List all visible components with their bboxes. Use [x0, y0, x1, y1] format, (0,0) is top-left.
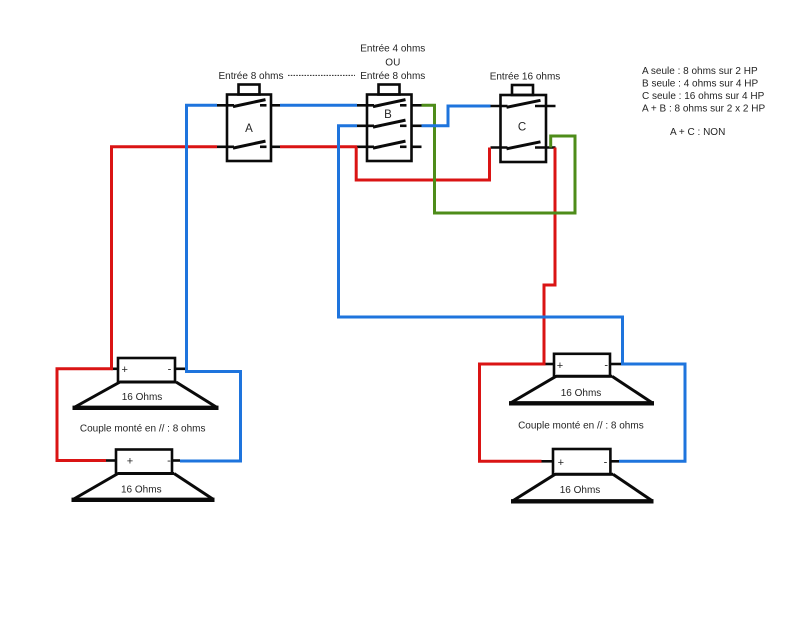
wire red A pole2 to B pole3: [280, 145, 357, 148]
svg-text:Entrée 16 ohms: Entrée 16 ohms: [490, 72, 561, 83]
wire red C pole2 right to right speakers: [480, 148, 556, 462]
wire green B pole1 to C pole2: [422, 105, 576, 213]
svg-text:Entrée 8 ohms: Entrée 8 ohms: [360, 71, 425, 82]
svg-text:-: -: [167, 455, 171, 467]
switch C pole 1: [491, 100, 556, 107]
svg-text:16 Ohms: 16 Ohms: [561, 388, 602, 399]
dashed link between labels: [288, 74, 355, 76]
wire blue A pole1 to left speakers: [180, 105, 241, 461]
svg-text:C: C: [518, 122, 526, 134]
svg-text:-: -: [604, 457, 608, 469]
switch B pole 3: [357, 141, 422, 148]
svg-text:Entrée 8 ohms: Entrée 8 ohms: [218, 71, 283, 82]
switch A pole 1: [217, 100, 280, 107]
wire blue A pole1 to B pole1: [280, 104, 357, 107]
svg-text:A + C : NON: A + C : NON: [670, 127, 725, 138]
switch B body: [367, 85, 412, 162]
speaker HP2 (left bottom) body: [72, 450, 215, 500]
speaker HP2 terminals: [106, 459, 180, 462]
svg-text:-: -: [604, 359, 608, 371]
svg-text:+: +: [557, 360, 563, 372]
speaker HP4 (right bottom) body: [511, 449, 654, 501]
speaker HP1 terminals: [111, 367, 187, 370]
svg-text:B seule : 4 ohms sur 4 HP: B seule : 4 ohms sur 4 HP: [642, 78, 758, 89]
svg-text:A seule : 8 ohms sur 2 HP: A seule : 8 ohms sur 2 HP: [642, 66, 758, 77]
speaker HP1 (left top) body: [73, 358, 219, 408]
svg-text:16 Ohms: 16 Ohms: [122, 392, 163, 403]
svg-text:Couple monté en // : 8 ohms: Couple monté en // : 8 ohms: [80, 423, 206, 434]
wire blue B pole2 to C pole1: [422, 106, 491, 126]
switch A pole 2: [217, 141, 280, 148]
switch A body: [227, 85, 271, 162]
switch B pole 1: [357, 100, 422, 107]
svg-text:Entrée 4 ohms: Entrée 4 ohms: [360, 44, 425, 55]
speaker HP4 terminals: [542, 460, 620, 463]
svg-text:-: -: [168, 363, 172, 375]
switch C pole 2: [491, 142, 556, 149]
svg-text:B: B: [384, 109, 392, 121]
svg-text:A + B : 8 ohms sur 2 x 2 HP: A + B : 8 ohms sur 2 x 2 HP: [642, 103, 765, 114]
svg-text:+: +: [558, 457, 564, 469]
svg-text:16 Ohms: 16 Ohms: [560, 485, 601, 496]
svg-text:C seule : 16 ohms sur 4 HP: C seule : 16 ohms sur 4 HP: [642, 91, 765, 102]
svg-text:A: A: [245, 123, 253, 135]
wire blue B pole2 to right speakers: [339, 126, 686, 462]
speaker HP3 terminals: [544, 363, 622, 366]
speaker HP3 (right top) body: [509, 354, 654, 404]
wire red A pole2 to left speakers: [57, 147, 217, 461]
svg-text:Couple monté en // : 8 ohms: Couple monté en // : 8 ohms: [518, 421, 644, 432]
svg-text:+: +: [127, 456, 133, 468]
switch B pole 2: [357, 120, 422, 127]
svg-text:16 Ohms: 16 Ohms: [121, 484, 162, 495]
switch C body: [501, 85, 547, 162]
svg-text:+: +: [121, 364, 127, 376]
wire red junction B pole3 down to C pole2 left: [356, 147, 489, 180]
svg-text:OU: OU: [385, 58, 400, 69]
